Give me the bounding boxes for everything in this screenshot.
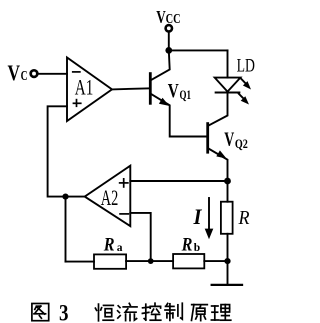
svg-text:a: a <box>117 242 123 254</box>
svg-text:LD: LD <box>237 56 255 77</box>
svg-text:A1: A1 <box>75 74 94 99</box>
svg-text:I: I <box>193 204 203 229</box>
svg-text:Q2: Q2 <box>235 136 248 151</box>
svg-text:V: V <box>8 60 21 85</box>
svg-text:C: C <box>21 69 28 84</box>
svg-text:Q1: Q1 <box>180 87 192 102</box>
svg-text:A2: A2 <box>101 185 119 210</box>
svg-text:R: R <box>103 236 115 256</box>
svg-text:R: R <box>181 236 193 256</box>
svg-text:V: V <box>156 7 166 27</box>
svg-text:3: 3 <box>59 300 69 323</box>
svg-text:b: b <box>194 242 200 254</box>
svg-text:V: V <box>168 80 179 102</box>
svg-text:CC: CC <box>166 12 181 27</box>
svg-text:V: V <box>224 129 234 151</box>
svg-text:R: R <box>238 207 250 229</box>
